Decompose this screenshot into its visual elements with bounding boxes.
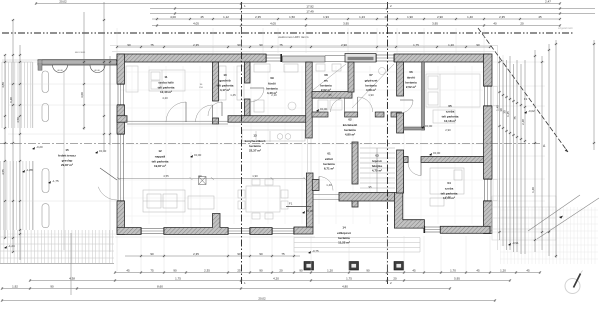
svg-text:±0,00: ±0,00 (320, 107, 328, 111)
room label 09 furdo (266, 76, 278, 95)
svg-text:F1: F1 (289, 202, 293, 206)
wall spine entrance stub (312, 180, 319, 191)
wall interior horizontal konyha top (421, 157, 484, 163)
plaster line above top wall (112, 51, 494, 53)
room label 10 gardrob (217, 73, 234, 92)
porch column 3 (394, 262, 404, 271)
wall bottom-left L pier (117, 228, 141, 235)
svg-text:-0,75: -0,75 (312, 249, 319, 253)
elevation mark right patio (524, 109, 535, 114)
room label 13 konyha-etkezo (245, 134, 266, 153)
plaster line right (502, 55, 504, 196)
slope diagonal room 08 (313, 64, 346, 90)
slope diagonal room 07 (352, 64, 394, 108)
wall interior vertical right spine mid (397, 113, 404, 133)
svg-text:1,12: 1,12 (223, 15, 229, 19)
svg-text:90: 90 (150, 252, 154, 256)
svg-text:±0,00: ±0,00 (433, 151, 441, 155)
svg-text:3,95: 3,95 (432, 22, 438, 26)
svg-text:közlekedő: közlekedő (343, 123, 358, 127)
svg-text:F1: F1 (524, 97, 528, 101)
svg-text:4,05: 4,05 (270, 22, 276, 26)
svg-text:szigetelt tető: szigetelt tető (558, 26, 573, 30)
top wall parapet band light (283, 56, 326, 62)
dimension column left inner 1 (83, 12, 86, 130)
svg-text:wc: wc (323, 79, 328, 83)
svg-text:gardrób: gardrób (219, 79, 231, 83)
dimension column right 8 (524, 60, 527, 254)
svg-text:±0,00: ±0,00 (99, 149, 107, 153)
svg-text:1,45: 1,45 (506, 111, 510, 117)
svg-text:kerámia: kerámia (266, 86, 278, 90)
svg-text:20: 20 (279, 269, 283, 273)
terrace post 2 (42, 104, 49, 122)
svg-text:előtér: előtér (325, 157, 334, 161)
entrance threshold lines (313, 195, 339, 200)
svg-text:75: 75 (513, 116, 517, 120)
window left wall upper (117, 83, 125, 106)
svg-text:20,02: 20,02 (258, 297, 266, 301)
svg-text:1,23: 1,23 (359, 15, 365, 19)
wall interior vertical gardrob-furdo lower (245, 99, 251, 116)
section line horizontal middle (0, 143, 541, 145)
terrace grid band bottom-left (0, 230, 114, 264)
svg-text:1,20: 1,20 (448, 43, 454, 47)
svg-text:2,52 m²: 2,52 m² (406, 85, 416, 89)
svg-text:1,20: 1,20 (500, 269, 506, 273)
furniture dining table konyha-etkezo (238, 179, 288, 219)
wall thin partition taro bottom (404, 127, 425, 130)
wall exterior left upper (117, 54, 125, 84)
svg-text:2,35: 2,35 (204, 269, 210, 273)
porch column 1 (304, 262, 314, 271)
svg-text:12,18 m²: 12,18 m² (444, 119, 456, 123)
window right wall upper (484, 85, 493, 107)
svg-text:greslap: greslap (62, 158, 73, 162)
svg-text:19,87 m²: 19,87 m² (154, 164, 166, 168)
elevation mark eloter (316, 107, 328, 112)
svg-text:teli parketta: teli parketta (152, 159, 169, 163)
svg-text:2,90: 2,90 (445, 128, 451, 132)
wall interior vertical lepcso left low (352, 199, 358, 207)
dimension row top 5 (152, 24, 561, 27)
window bottom wall kitchen (424, 226, 442, 233)
room label 08 wc (320, 73, 332, 92)
wall interior spine upper (306, 62, 313, 138)
svg-text:95: 95 (328, 93, 332, 97)
svg-text:2,35: 2,35 (255, 15, 261, 19)
plinth line below bottom wall (115, 236, 315, 238)
svg-text:teli parketta: teli parketta (217, 83, 234, 87)
wall porch right L (394, 193, 424, 229)
garden bar left return (38, 60, 42, 70)
stair treads lepcso (360, 148, 395, 198)
door szoba11 to nappali (166, 102, 186, 122)
svg-text:4,80: 4,80 (342, 285, 348, 289)
svg-text:3,95: 3,95 (343, 22, 349, 26)
svg-text:±0,00: ±0,00 (306, 209, 314, 213)
svg-text:teli parketta: teli parketta (442, 114, 459, 118)
svg-text:4,80 m²: 4,80 m² (345, 133, 355, 137)
section line vertical 2 (387, 2, 389, 286)
svg-text:6,48: 6,48 (9, 97, 13, 103)
door kozlekedo-wc niche (331, 98, 345, 112)
roof overhang line left (109, 60, 111, 252)
svg-text:02: 02 (348, 118, 352, 122)
svg-text:12: 12 (158, 149, 162, 153)
wall exterior left mid (117, 105, 125, 134)
svg-text:±0,00: ±0,00 (425, 124, 433, 128)
terrain arrow mark (559, 216, 563, 219)
dimension column right 11 (548, 44, 551, 256)
furniture bed szoba 05 (426, 74, 480, 123)
wall interior horizontal rooms-living (117, 116, 127, 123)
svg-text:90: 90 (299, 269, 303, 273)
svg-text:fedett terasz: fedett terasz (58, 154, 76, 158)
svg-text:1,40: 1,40 (531, 187, 535, 193)
wall exterior top segment 1 (117, 54, 266, 62)
top wall niche thin lines (325, 56, 345, 62)
svg-text:12,40 m²: 12,40 m² (160, 90, 172, 94)
svg-text:1,20: 1,20 (327, 269, 333, 273)
svg-text:90: 90 (366, 269, 370, 273)
room label 06 tarolo (405, 70, 417, 89)
svg-text:75: 75 (150, 269, 154, 273)
svg-text:01: 01 (327, 152, 331, 156)
dimension column left inner 2 (103, 2, 106, 150)
window bottom wall 3 (271, 228, 295, 235)
svg-text:5,95: 5,95 (454, 277, 460, 281)
svg-text:1,50: 1,50 (289, 15, 295, 19)
wall interior vertical wc-kozlekedo upper (348, 62, 354, 92)
svg-text:fürdő: fürdő (268, 82, 276, 86)
dimension row above wall (116, 46, 491, 49)
svg-text:4,80: 4,80 (1, 82, 5, 88)
svg-text:11: 11 (164, 75, 168, 79)
wall interior horizontal rooms-living b (228, 116, 312, 123)
window bottom wall 1 (140, 228, 165, 235)
svg-text:6,71 m²: 6,71 m² (324, 167, 334, 171)
garden wall bar with gate arcs (38, 60, 117, 73)
svg-text:90: 90 (259, 269, 263, 273)
dimension column right 5 (512, 64, 515, 252)
cased opening lines konyha-kozlekedo (308, 138, 312, 173)
wall interior vertical lepcso left (352, 142, 358, 184)
terrace depth dim line (70, 233, 72, 295)
wall interior vertical szoba11-gardrob lower (213, 118, 219, 124)
wall interior vertical right spine lower (397, 150, 404, 193)
svg-text:2,40: 2,40 (445, 195, 451, 199)
svg-text:25: 25 (237, 269, 241, 273)
svg-text:tároló: tároló (407, 76, 416, 80)
extension lines left (8, 62, 117, 234)
terrace decking stripes lower (1, 161, 34, 230)
floor grid light lines (120, 66, 483, 224)
elevation mark szoba05 (421, 124, 433, 129)
top wall HMV cabinet dark (345, 54, 376, 63)
svg-text:40 40: 40 40 (94, 70, 100, 72)
svg-text:90: 90 (237, 43, 241, 47)
dimension column right 2 (502, 60, 505, 246)
svg-text:4,20: 4,20 (273, 277, 279, 281)
elevation mark terrace 4 (48, 179, 59, 184)
svg-text:90: 90 (173, 269, 177, 273)
terrace post 4 (42, 204, 49, 228)
svg-text:kerámia: kerámia (344, 128, 356, 132)
svg-text:kerámia: kerámia (338, 236, 350, 240)
sliding partition szoba11-nappali thin lines (127, 121, 228, 124)
wall interior horizontal furdo-wc (312, 92, 352, 99)
dimension column right 9 (534, 50, 537, 252)
dimension row bottom 3 (1, 287, 451, 290)
internal dimension line nappali (117, 152, 306, 228)
door entrance (319, 177, 333, 191)
svg-text:10: 10 (223, 73, 227, 77)
wall thin partition taro-szoba05 (422, 62, 425, 130)
svg-text:1,90: 1,90 (368, 93, 374, 97)
furniture sofa group nappali (143, 190, 214, 212)
svg-text:2,02 m²: 2,02 m² (321, 88, 331, 92)
wall bottom right of window (440, 226, 490, 233)
furniture bed szoba 04 (430, 168, 464, 206)
svg-text:95: 95 (368, 185, 372, 189)
terrain diagonal line lower 1 (528, 195, 580, 231)
svg-text:4661 3661: 4661 3661 (75, 52, 86, 54)
dimension column left 2 (12, 19, 15, 253)
svg-text:2,47: 2,47 (545, 0, 551, 4)
svg-text:-0,91: -0,91 (512, 241, 519, 245)
door kozlekedo-gepeszet (358, 97, 373, 112)
room label 15 terasz (58, 148, 76, 167)
dimension column right 10 (541, 56, 544, 250)
wall interior vertical gardrob-furdo upper (245, 62, 251, 83)
svg-text:4,55: 4,55 (1, 169, 5, 175)
svg-text:1,90: 1,90 (407, 15, 413, 19)
extension lines bottom (117, 236, 490, 271)
svg-text:1,45: 1,45 (230, 93, 236, 97)
elevation mark terrace 3 (22, 168, 33, 173)
svg-text:29,87 m²: 29,87 m² (61, 163, 73, 167)
dimension column right edge (593, 40, 596, 150)
room label 05 szoba (442, 104, 459, 123)
svg-text:45: 45 (200, 15, 204, 19)
room label 14 eloterasz (337, 226, 351, 245)
dimension column right 12 (555, 40, 558, 258)
niche appliance rects (318, 100, 342, 110)
wall interior vertical right spine upper (397, 62, 404, 96)
roof overhang line top (2, 59, 117, 61)
dimension row bottom 1 (114, 271, 541, 274)
svg-text:75: 75 (279, 43, 283, 47)
svg-text:45: 45 (476, 269, 480, 273)
door gardrob (208, 102, 222, 116)
svg-text:1,92: 1,92 (12, 285, 18, 289)
svg-text:4,17 m²: 4,17 m² (220, 88, 230, 92)
svg-text:22,37 m²: 22,37 m² (249, 149, 261, 153)
dimension row bottom total (1, 299, 496, 302)
svg-text:4,20: 4,20 (162, 96, 168, 100)
dimension row under left windows (125, 255, 300, 258)
column cross marker nappali (199, 177, 207, 185)
svg-text:-1,75: -1,75 (52, 179, 59, 183)
wall partition wc-kozlekedo horizontal pieces (312, 112, 402, 117)
svg-text:szoba háló: szoba háló (158, 81, 174, 85)
dimension column right 6 (516, 60, 519, 252)
roof diagonal line upper (478, 28, 568, 152)
room label 07 gepeszet (365, 73, 378, 92)
wall bottom-left of porch corner (294, 227, 313, 234)
svg-text:2,35: 2,35 (193, 43, 199, 47)
svg-text:1,70: 1,70 (450, 269, 456, 273)
svg-text:1,40: 1,40 (467, 15, 473, 19)
svg-text:kerámia: kerámia (405, 80, 417, 84)
svg-text:kerámia: kerámia (323, 162, 335, 166)
wall exterior top segment 3 (394, 54, 490, 62)
svg-text:2,10: 2,10 (271, 93, 277, 97)
svg-text:45: 45 (526, 269, 530, 273)
window top wall hallway (375, 54, 395, 62)
svg-text:-0,20: -0,20 (36, 145, 43, 149)
svg-text:kerámia: kerámia (249, 144, 261, 148)
wall exterior right lower (484, 201, 493, 234)
lintel leader line F1 (286, 202, 311, 207)
svg-text:20,02: 20,02 (59, 0, 67, 4)
svg-text:gépészet: gépészet (365, 79, 378, 83)
svg-text:20: 20 (393, 277, 397, 281)
svg-text:90: 90 (237, 252, 241, 256)
svg-text:lépcső: lépcső (372, 159, 382, 163)
svg-text:4,08 m²: 4,08 m² (366, 88, 376, 92)
furniture bath fixtures (254, 64, 341, 112)
svg-text:45: 45 (126, 269, 130, 273)
wall bottom pier (250, 228, 272, 235)
room label 11 szoba (158, 75, 175, 94)
svg-text:40: 40 (384, 15, 388, 19)
elevation mark nappali (190, 153, 202, 158)
svg-text:07: 07 (369, 73, 373, 77)
svg-text:15: 15 (65, 148, 69, 152)
svg-text:2,35: 2,35 (193, 252, 199, 256)
window right wall lower (484, 178, 493, 202)
terrain diagonal line lower 2 (537, 198, 599, 239)
svg-text:3,00: 3,00 (80, 92, 84, 98)
wall interior porch top (339, 193, 394, 202)
furniture gardrob shelves (219, 66, 244, 100)
elevation mark terrace 2 (32, 145, 43, 150)
svg-text:09: 09 (270, 76, 274, 80)
terrace post 3 (42, 169, 49, 193)
svg-text:90: 90 (50, 285, 54, 289)
svg-text:20: 20 (520, 22, 524, 26)
window top wall bathroom (265, 54, 282, 62)
dimension column right 4 (509, 56, 512, 250)
room label 12 nappali (152, 149, 169, 168)
svg-text:40: 40 (493, 22, 497, 26)
svg-text:felújtás: felújtás (372, 164, 383, 168)
porch column 2 (349, 262, 359, 271)
wall exterior right upper (484, 54, 493, 86)
dimension column right 1 (498, 56, 501, 240)
svg-text:1,40: 1,40 (326, 183, 332, 187)
section line horizontal top (2, 32, 573, 34)
svg-text:szoba: szoba (446, 110, 455, 114)
svg-text:±0,00: ±0,00 (194, 153, 202, 157)
svg-text:45: 45 (538, 15, 542, 19)
elevation mark konyha (429, 151, 441, 156)
svg-text:szoba: szoba (445, 187, 454, 191)
terrace edge line (63, 60, 65, 250)
elevation mark bottom right (508, 241, 519, 246)
dimension column right 3 (505, 60, 508, 250)
dimension row top total (35, 2, 561, 5)
svg-text:8,60: 8,60 (157, 285, 163, 289)
svg-text:2,90: 2,90 (341, 43, 347, 47)
svg-text:1,75: 1,75 (346, 277, 352, 281)
wall exterior right mid (484, 106, 493, 179)
eave line above top wall (110, 45, 497, 47)
wall interior vertical szoba11-gardrob (213, 62, 219, 101)
dimension row top 4 (152, 18, 561, 21)
terrace post 1 (42, 71, 49, 93)
svg-text:2,90: 2,90 (437, 15, 443, 19)
right side patio light lines (492, 196, 556, 240)
svg-text:90: 90 (259, 43, 263, 47)
elevation mark porch low (308, 249, 319, 254)
svg-text:-1,24: -1,24 (8, 244, 15, 248)
svg-text:1,75: 1,75 (413, 43, 419, 47)
svg-text:4,55: 4,55 (163, 174, 169, 178)
window-door left wall living room (117, 133, 125, 202)
svg-text:14: 14 (342, 226, 346, 230)
dimension row top 2 (150, 7, 595, 10)
svg-text:1,93: 1,93 (323, 15, 329, 19)
window sill right upper (493, 87, 498, 106)
eave line right (497, 45, 499, 250)
extension lines top (117, 28, 484, 53)
svg-text:06: 06 (409, 70, 413, 74)
window sill right lower (493, 180, 498, 201)
furniture bed szoba 11 (126, 66, 185, 92)
window bottom wall 2 (227, 228, 251, 235)
svg-text:75: 75 (281, 252, 285, 256)
svg-text:90: 90 (259, 252, 263, 256)
svg-text:4,05: 4,05 (193, 22, 199, 26)
svg-text:11,22 m²: 11,22 m² (338, 241, 350, 245)
svg-text:04: 04 (447, 181, 451, 185)
svg-text:45: 45 (412, 269, 416, 273)
svg-text:90: 90 (127, 43, 131, 47)
svg-text:1,90: 1,90 (252, 174, 258, 178)
svg-text:4,50: 4,50 (16, 117, 20, 123)
svg-text:13: 13 (253, 134, 257, 138)
svg-text:05: 05 (448, 104, 452, 108)
dimension column far left (4, 54, 7, 239)
svg-text:4,38: 4,38 (69, 277, 75, 281)
svg-text:17,49: 17,49 (306, 10, 314, 14)
svg-text:03: 03 (375, 154, 379, 158)
svg-text:90: 90 (198, 174, 202, 178)
elevation mark bottom left (4, 244, 15, 249)
svg-text:kerámia: kerámia (320, 83, 332, 87)
dimension column left inner 3 (109, 56, 112, 145)
svg-text:17,92: 17,92 (306, 5, 314, 9)
svg-text:konyha-étkező: konyha-étkező (245, 139, 266, 143)
dimension column left 3 (19, 45, 22, 260)
svg-text:4,00: 4,00 (170, 15, 176, 19)
svg-text:teli parketta: teli parketta (158, 85, 175, 89)
room label 01 eloter (323, 152, 335, 171)
grid texture bottom right (500, 207, 598, 264)
